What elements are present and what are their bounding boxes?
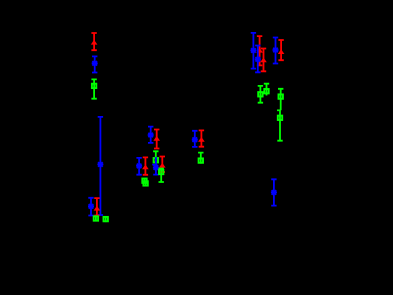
green point A3 error bar <box>91 79 96 98</box>
blue point E5 error bar <box>273 38 278 64</box>
red point E6 triangle marker <box>278 49 285 54</box>
blue point E11 error bar <box>271 179 276 205</box>
red point D2 error bar <box>199 130 204 146</box>
red point E4 triangle marker <box>260 58 267 63</box>
green point C8 error bar <box>159 169 164 183</box>
blue point D1 star marker <box>192 137 198 142</box>
blue point E11 star marker <box>271 190 277 195</box>
green point E10 square marker <box>278 116 282 120</box>
red point C7 triangle marker <box>159 163 166 168</box>
red point D2 triangle marker <box>198 137 205 142</box>
green point B4 error bar <box>95 216 97 222</box>
blue point E3 star marker <box>255 57 261 62</box>
blue point A2 error bar <box>92 56 97 72</box>
blue point C6 star marker <box>153 165 159 170</box>
green point E9 error bar <box>278 89 283 111</box>
green point A3 square marker <box>92 84 96 88</box>
blue point C1 error bar <box>148 127 153 143</box>
green point C3 square marker <box>154 158 158 162</box>
red point E6 error bar <box>278 40 283 60</box>
green point E8 error bar <box>264 84 269 96</box>
green point D3 error bar <box>198 153 203 164</box>
blue point C6 error bar <box>153 157 158 175</box>
red point E2 triangle marker <box>256 48 263 53</box>
red point C7 error bar <box>160 157 165 173</box>
green point C9b error bar <box>145 181 147 187</box>
green point E8 square marker <box>264 89 268 93</box>
red point C2 triangle marker <box>153 136 160 141</box>
red point C5 triangle marker <box>142 164 149 169</box>
green point E7 error bar <box>258 86 263 103</box>
red point C5 error bar <box>143 157 148 174</box>
blue point E3 error bar <box>255 46 260 73</box>
green point B5 square marker <box>104 217 108 221</box>
green point E10 error bar <box>277 110 282 140</box>
blue point B2 star marker <box>88 204 94 209</box>
green point B4 square marker <box>94 216 98 220</box>
blue point E1 error bar <box>251 33 256 69</box>
blue point B1 error bar <box>98 117 103 215</box>
blue point E5 star marker <box>273 48 279 53</box>
red point A1 triangle marker <box>91 40 98 45</box>
blue point A2 star marker <box>92 61 98 66</box>
red point E4 error bar <box>261 49 266 72</box>
green point C3 error bar <box>153 151 158 163</box>
green point C8 square marker <box>159 170 163 174</box>
green point D3 square marker <box>199 158 203 162</box>
green point E7 square marker <box>258 92 262 96</box>
green point E9 square marker <box>279 94 283 98</box>
blue point D1 error bar <box>192 131 197 147</box>
green point C9a square marker <box>142 179 146 183</box>
green point C9b square marker <box>143 181 147 185</box>
blue point C6 inner cap <box>152 164 157 166</box>
green point B5 error bar <box>105 216 107 222</box>
blue point C4 error bar <box>136 158 141 175</box>
red point C2 error bar <box>154 130 159 149</box>
blue point C4 star marker <box>136 164 142 169</box>
blue point B1 star marker <box>97 162 103 167</box>
blue point B2 error bar <box>88 198 93 216</box>
green point E10 half top cap <box>277 109 281 111</box>
blue point E1 star marker <box>250 48 256 53</box>
red point B3 error bar <box>94 198 99 215</box>
red point A1 error bar <box>91 33 96 50</box>
red point B3 triangle marker <box>94 206 101 211</box>
green point C9a error bar <box>144 178 146 184</box>
blue point C1 star marker <box>148 133 154 138</box>
red point E2 error bar <box>257 36 262 65</box>
